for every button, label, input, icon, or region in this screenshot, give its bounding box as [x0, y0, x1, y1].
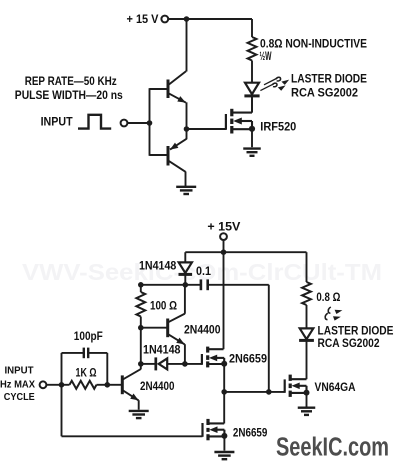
node +15V supply label (bottom) [207, 221, 240, 233]
ground M3 source [214, 452, 234, 459]
wire output node to IRF520 gate [187, 128, 226, 130]
diode D2 1N4148 (vertical) [179, 252, 193, 285]
label VN64GA [315, 382, 356, 394]
svg-text:PULSE WIDTH—20 ns: PULSE WIDTH—20 ns [15, 90, 123, 102]
wire IRF520 source to ground [251, 129, 253, 147]
svg-text:Hz MAX: Hz MAX [0, 379, 35, 390]
mosfet M1 IRF520 [226, 109, 252, 134]
laser diode D1 RCA SG2002 (top) [244, 83, 259, 113]
wire Q4 emitter to ground [138, 400, 140, 410]
svg-text:INPUT: INPUT [5, 366, 34, 377]
capacitor C2 100pF with branch wires [62, 348, 108, 385]
diode D3 1N4148 (horizontal, pointing left) [141, 357, 185, 370]
label LASTER DIODE (top) [291, 74, 367, 86]
junction dot output node (push-pull) [184, 126, 190, 132]
transistor Q1 2N NPN upper (push-pull) [150, 80, 186, 103]
watermark SeekIC.com [276, 433, 389, 461]
svg-text:CYCLE: CYCLE [4, 392, 35, 403]
svg-text:2N4400: 2N4400 [140, 381, 175, 393]
laser emission arrows (bottom) [325, 307, 342, 321]
terminal INPUT (bottom) [40, 381, 47, 388]
wire Q2 collector to ground [185, 172, 187, 187]
svg-text:2N6659: 2N6659 [233, 427, 268, 439]
wire to VN64GA gate [224, 391, 285, 393]
wire Q1 collector to +15V rail [169, 18, 187, 85]
wire Q3 base [141, 327, 168, 329]
svg-text:IRF520: IRF520 [260, 121, 296, 133]
svg-text:RCA SG2002: RCA SG2002 [318, 338, 380, 350]
svg-text:0.8 Ω: 0.8 Ω [316, 292, 340, 304]
wire +15V rail (bottom) [185, 251, 306, 253]
junction dot +15V rail / Q1 collector [184, 16, 190, 22]
wire capacitor C1 right to VN64GA gate branch [208, 285, 269, 392]
svg-text:LASTER DIODE: LASTER DIODE [318, 326, 394, 338]
terminal INPUT (top) [121, 120, 128, 127]
wire M3 source to ground [223, 436, 225, 451]
label INPUT (top) [41, 116, 73, 128]
label RCA SG2002 (bottom) [318, 338, 380, 350]
svg-text:SeekIC.com: SeekIC.com [276, 433, 389, 461]
junction dot VN64GA source/body [304, 390, 310, 396]
svg-text:2N4400: 2N4400 [184, 324, 221, 336]
resistor R2 100 ohm [136, 285, 145, 328]
label 0.8 ohm (bottom) [316, 292, 340, 304]
svg-text:0.1: 0.1 [196, 266, 212, 278]
ground IRF520 source [243, 149, 261, 156]
mosfet M2 2N6659 (upper) [185, 347, 224, 368]
junction dot IRF520 source/body [249, 126, 255, 132]
transistor Q4 2N4400 (lower left) [122, 369, 141, 400]
label RCA SG2002 (top) [291, 87, 358, 99]
label 2N4400 (Q3) [184, 324, 221, 336]
junction dot M2 source / VN64GA gate wire [221, 389, 227, 395]
label INPUT (bottom) [5, 366, 34, 377]
laser diode D4 RCA SG2002 (bottom) [299, 328, 314, 379]
wire M2 source down to M3 drain [223, 364, 225, 424]
wire +15V rail (top) [168, 18, 252, 20]
svg-text:½W: ½W [260, 51, 272, 63]
wire IRF520 drain to laser diode [251, 96, 253, 113]
junction dot C1 branch / gate wire [266, 389, 272, 395]
resistor R4 1K ohm [62, 381, 108, 389]
terminal +15V (top) [161, 16, 168, 23]
label 2N6659 (M3) [233, 427, 268, 439]
wire Q4 collector up to D3 node [140, 364, 142, 369]
label 1/2W [260, 51, 272, 63]
label 1N4148 (D2) [139, 260, 177, 272]
label 1N4148 (D3) [143, 344, 181, 356]
transistor Q2 PNP lower (push-pull) [150, 139, 187, 172]
label LASTER DIODE (bottom) [318, 326, 394, 338]
node +15V supply label (top) [127, 14, 159, 26]
junction dot input node (bottom) [59, 382, 65, 388]
laser emission arrows (top) [260, 77, 289, 90]
wire Q1 emitter to output node [186, 102, 188, 139]
junction dot 100 ohm top node [138, 282, 144, 288]
junction dot M2 source/body [221, 361, 227, 367]
capacitor C1 0.1 [201, 279, 208, 290]
svg-text:1K Ω: 1K Ω [76, 367, 97, 379]
mosfet M3 2N6659 (lower) [203, 419, 225, 440]
label REP RATE 50 KHz [25, 76, 117, 88]
resistor R3 0.8 ohm [302, 252, 311, 328]
transistor Q3 2N4400 (upper) [168, 314, 185, 345]
svg-text:INPUT: INPUT [41, 116, 73, 128]
svg-text:REP RATE—50 KHz: REP RATE—50 KHz [25, 76, 117, 88]
svg-text:1N4148: 1N4148 [139, 260, 177, 272]
ground Q2 collector [176, 187, 196, 194]
terminal +15V (bottom) [220, 233, 227, 240]
junction dot R4 right node [105, 382, 111, 388]
svg-text:100pF: 100pF [74, 331, 103, 343]
svg-text:RCA SG2002: RCA SG2002 [291, 87, 358, 99]
wire input terminal to node [46, 384, 61, 386]
svg-text:2N6659: 2N6659 [229, 353, 267, 365]
label Hz MAX [0, 379, 35, 390]
svg-text:+ 15 V: + 15 V [127, 14, 159, 26]
wire VN64GA source to ground [306, 393, 308, 407]
label 0.8 ohm NON-INDUCTIVE [260, 38, 367, 50]
junction dot input node [147, 120, 153, 126]
label 2N6659 (M2) [229, 353, 267, 365]
input pulse waveform symbol (top) [78, 115, 111, 129]
junction dot M3 source/body [221, 433, 227, 439]
wire node to capacitor C1 left [141, 284, 201, 286]
svg-text:100 Ω: 100 Ω [150, 300, 177, 312]
label 100 ohm [150, 300, 177, 312]
wire input to base rail [128, 122, 150, 124]
label 100pF [74, 331, 103, 343]
label 2N4400 (Q4) [140, 381, 175, 393]
junction dot +15V rail feed [221, 249, 227, 255]
label 0.1 (C1) [196, 266, 212, 278]
wire +15V terminal to rail [223, 240, 225, 252]
wire input node down to M3 gate [62, 385, 203, 437]
label IRF520 [260, 121, 296, 133]
ground Q4 emitter [129, 411, 149, 418]
label 1K ohm [76, 367, 97, 379]
svg-text:+ 15V: + 15V [207, 221, 240, 233]
faint watermark (center) [22, 259, 382, 285]
junction dot D3 left node [138, 361, 144, 367]
junction dot D2 cathode / Q3 collector node [183, 282, 189, 288]
ground VN64GA source [298, 408, 316, 415]
label CYCLE [4, 392, 35, 403]
wire Q3 collector to node [184, 285, 186, 314]
wire base rail of push-pull pair [149, 88, 151, 156]
wire +15V feed down to M2 drain [223, 252, 225, 349]
resistor 0.8 ohm non-inductive R1 [248, 19, 257, 83]
svg-text:1N4148: 1N4148 [143, 344, 181, 356]
svg-text:LASTER DIODE: LASTER DIODE [291, 74, 367, 86]
junction dot 100 ohm bottom / Q3 base node [138, 325, 144, 331]
wire 100ohm bottom to D3 anode node [140, 328, 142, 364]
wire R4 node to Q4 base [107, 384, 122, 386]
label PULSE WIDTH 20 ns [15, 90, 123, 102]
wire Q3 emitter down to gate node [184, 344, 186, 364]
junction dot M2 gate node [182, 361, 188, 367]
mosfet M4 VN64GA [285, 375, 307, 397]
svg-text:0.8Ω NON-INDUCTIVE: 0.8Ω NON-INDUCTIVE [260, 38, 367, 50]
svg-text:VN64GA: VN64GA [315, 382, 356, 394]
